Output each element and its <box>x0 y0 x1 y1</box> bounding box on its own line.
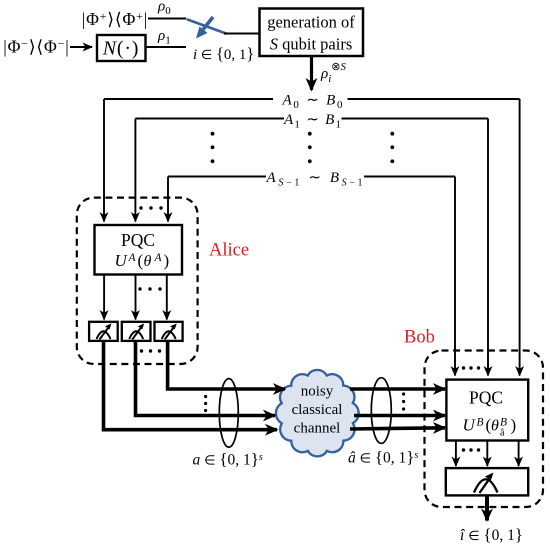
wire A0~B0 left segment <box>104 98 273 100</box>
svg-text:i ∈ {0, 1}: i ∈ {0, 1} <box>193 44 254 63</box>
wire classical a bit 3 (meter3 to cloud top line) <box>168 341 285 389</box>
wire PQC to meter 2 <box>135 275 137 320</box>
ellipse bundle a <box>219 379 238 448</box>
wire AS-1~BS-1 right segment <box>364 176 455 178</box>
dots between Bob PQC and meter <box>462 448 480 451</box>
svg-text:classical: classical <box>292 402 343 418</box>
dots between PQC and meters <box>138 287 161 290</box>
dots between a wires <box>204 395 207 412</box>
wire switch pivot to generation box <box>224 33 260 35</box>
switch blue blade <box>188 20 227 34</box>
wire B0 vertical into Bob PQC <box>519 99 521 376</box>
wire AS-1~BS-1 left segment <box>168 176 266 178</box>
wire A1~B1 right segment <box>342 118 489 120</box>
svg-text:N(·): N(·) <box>102 38 140 60</box>
svg-text:generation of: generation of <box>267 13 355 32</box>
ellipse bundle a-hat <box>371 378 391 444</box>
svg-text:PQC: PQC <box>469 388 503 408</box>
wire classical a bit 1 (meter1 to cloud bottom line) <box>104 341 278 430</box>
box Bob PQC <box>446 380 528 441</box>
wire Bob PQC to meter 1 <box>455 441 457 467</box>
svg-text:UA(θA): UA(θA) <box>115 251 170 270</box>
svg-text:UB(θBâ): UB(θBâ) <box>463 416 517 439</box>
wire PQC to meter 3 <box>166 275 168 320</box>
svg-text:|Φ−⟩⟨Φ−|: |Φ−⟩⟨Φ−| <box>3 37 69 57</box>
meter box 1 <box>89 322 118 341</box>
wire PQC to meter 1 <box>103 275 105 320</box>
wire Bob PQC to meter 2 <box>486 441 488 467</box>
switch blue toggle arrow <box>196 17 213 39</box>
dots above Alice PQC <box>139 206 162 209</box>
wire B1 vertical into Bob PQC <box>487 119 489 376</box>
meter box 3 <box>155 322 183 341</box>
svg-text:ρi⊗S: ρi⊗S <box>320 61 346 85</box>
dots between a-hat wires <box>402 392 405 410</box>
svg-text:PQC: PQC <box>121 230 155 250</box>
svg-text:ρ1: ρ1 <box>157 28 171 47</box>
wire a-hat bit 2 (cloud to Bob PQC middle line) <box>354 414 445 418</box>
arrow rho_i tensor S <box>310 56 313 90</box>
wire BS-1 vertical into Bob PQC <box>454 177 456 376</box>
wire a-hat bit 1 (cloud to Bob PQC bottom line) <box>350 428 445 429</box>
svg-text:|Φ+⟩⟨Φ+|: |Φ+⟩⟨Φ+| <box>82 9 148 29</box>
svg-text:Alice: Alice <box>209 241 249 261</box>
svg-text:noisy: noisy <box>301 384 334 400</box>
dots below meters <box>140 349 161 352</box>
box N(.) noise channel <box>97 35 146 61</box>
wire A1~B1 left segment <box>135 118 284 120</box>
svg-text:Bob: Bob <box>404 328 435 348</box>
box Alice PQC <box>95 225 183 275</box>
svg-text:AS−1 ∼ BS−1: AS−1 ∼ BS−1 <box>266 170 363 189</box>
wire arrow into N box <box>70 46 92 48</box>
wire Bob PQC to meter 3 <box>518 441 520 467</box>
svg-text:A1 ∼ B1: A1 ∼ B1 <box>283 112 341 131</box>
wire A0 vertical into Alice PQC <box>103 99 105 222</box>
svg-text:A0 ∼ B0: A0 ∼ B0 <box>282 93 344 112</box>
dots above Bob PQC <box>462 366 480 369</box>
svg-text:a ∈ {0, 1}s: a ∈ {0, 1}s <box>193 450 263 469</box>
wire rho0 <box>148 18 186 20</box>
wire a-hat bit 3 (cloud to Bob PQC top line) <box>350 387 445 391</box>
arrow i-hat output <box>485 495 489 520</box>
dots between qubit pair wires right column <box>390 132 394 163</box>
cloud noisy classical channel <box>276 370 359 456</box>
svg-text:â ∈ {0, 1}s: â ∈ {0, 1}s <box>348 448 418 467</box>
Bob dashed box <box>425 351 544 508</box>
wire classical a bit 2 (meter2 to cloud middle line) <box>136 341 276 416</box>
meter box 2 <box>122 322 151 341</box>
svg-text:S qubit pairs: S qubit pairs <box>270 35 353 54</box>
wire rho1 <box>146 46 187 48</box>
svg-text:ρ0: ρ0 <box>157 0 171 17</box>
wire A0~B0 right segment <box>348 98 520 100</box>
dots between qubit pair wires left column <box>211 132 215 163</box>
svg-text:channel: channel <box>294 421 341 437</box>
Alice dashed box <box>77 198 198 364</box>
wire A1 vertical into Alice PQC <box>134 119 136 222</box>
svg-text:î ∈ {0, 1}: î ∈ {0, 1} <box>460 525 523 544</box>
wire AS-1 vertical into Alice PQC <box>167 177 169 222</box>
dots between qubit pair wires middle column <box>308 132 312 163</box>
box generation of S qubit pairs <box>260 9 364 57</box>
Bob meter box <box>446 468 528 495</box>
